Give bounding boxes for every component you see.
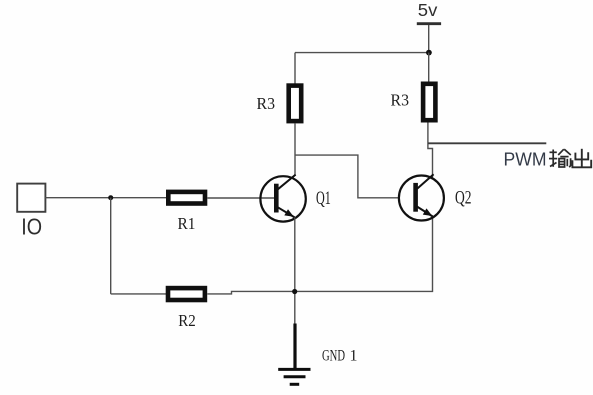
resistor R1 body bbox=[168, 192, 205, 204]
svg-text:R3: R3 bbox=[257, 94, 276, 113]
label Chinese 出 (output char 2) bbox=[572, 149, 591, 168]
wire R2 right to emitter rail with jog bbox=[207, 218, 432, 294]
transistor Q1 base bar bbox=[274, 184, 279, 213]
svg-text:R3: R3 bbox=[391, 91, 410, 110]
wire Q1 collector branch to Q2 base bbox=[295, 155, 399, 198]
svg-text:5v: 5v bbox=[418, 0, 438, 20]
node junction top rail bbox=[426, 50, 432, 56]
transistor Q1 emitter arrow bbox=[284, 209, 294, 217]
svg-text:PWM: PWM bbox=[504, 149, 547, 170]
resistor R3 left body bbox=[289, 86, 302, 122]
wire R3 left bottom to Q1 collector bbox=[294, 123, 296, 176]
transistor Q1 circle bbox=[260, 176, 305, 221]
ground GND1 bar 2 bbox=[284, 375, 306, 378]
svg-text:Q1: Q1 bbox=[316, 188, 331, 209]
svg-text:R2: R2 bbox=[178, 311, 196, 330]
wire top rail bbox=[295, 52, 429, 54]
wire R3 right bottom to Q2 collector with jog bbox=[428, 123, 433, 179]
wire junction to R3 right top bbox=[428, 53, 430, 82]
wire to R2 left bbox=[111, 293, 167, 295]
svg-text:1: 1 bbox=[350, 348, 358, 365]
node junction emitter rail bbox=[292, 289, 297, 294]
ground GND1 bar 3 bbox=[290, 383, 300, 386]
svg-text:GND: GND bbox=[322, 348, 345, 365]
resistor R3 right body bbox=[423, 84, 435, 120]
wire junction down to R2 level bbox=[110, 198, 112, 294]
transistor Q1 emitter stroke bbox=[278, 207, 295, 217]
transistor Q2 emitter arrow bbox=[423, 208, 433, 216]
node junction at IO wire bbox=[108, 195, 113, 200]
port IO box bbox=[17, 184, 45, 212]
ground GND1 stem bbox=[293, 324, 296, 370]
svg-text:Q2: Q2 bbox=[455, 188, 472, 209]
transistor Q2 circle bbox=[399, 176, 444, 221]
transistor Q1 collector stroke bbox=[278, 175, 296, 190]
transistor Q2 base bar bbox=[413, 183, 418, 212]
resistor R2 body bbox=[168, 288, 205, 300]
wire R1 to Q1 base bbox=[207, 197, 274, 199]
transistor Q2 emitter stroke bbox=[417, 207, 433, 217]
wire 5v bar to top rail bbox=[428, 25, 430, 53]
label Chinese 输 (output char 1) bbox=[549, 149, 571, 167]
transistor Q2 collector stroke bbox=[417, 174, 434, 189]
wire rail to R3 left top bbox=[294, 53, 296, 84]
wire Q1 emitter down to ground junction bbox=[294, 218, 296, 325]
ground GND1 bar 1 bbox=[278, 368, 310, 371]
wire IO to R1 bbox=[45, 197, 168, 199]
svg-text:IO: IO bbox=[21, 214, 42, 240]
wire PWM output line bbox=[428, 142, 546, 144]
power 5v rail bar bbox=[417, 22, 441, 25]
svg-text:R1: R1 bbox=[178, 214, 196, 233]
